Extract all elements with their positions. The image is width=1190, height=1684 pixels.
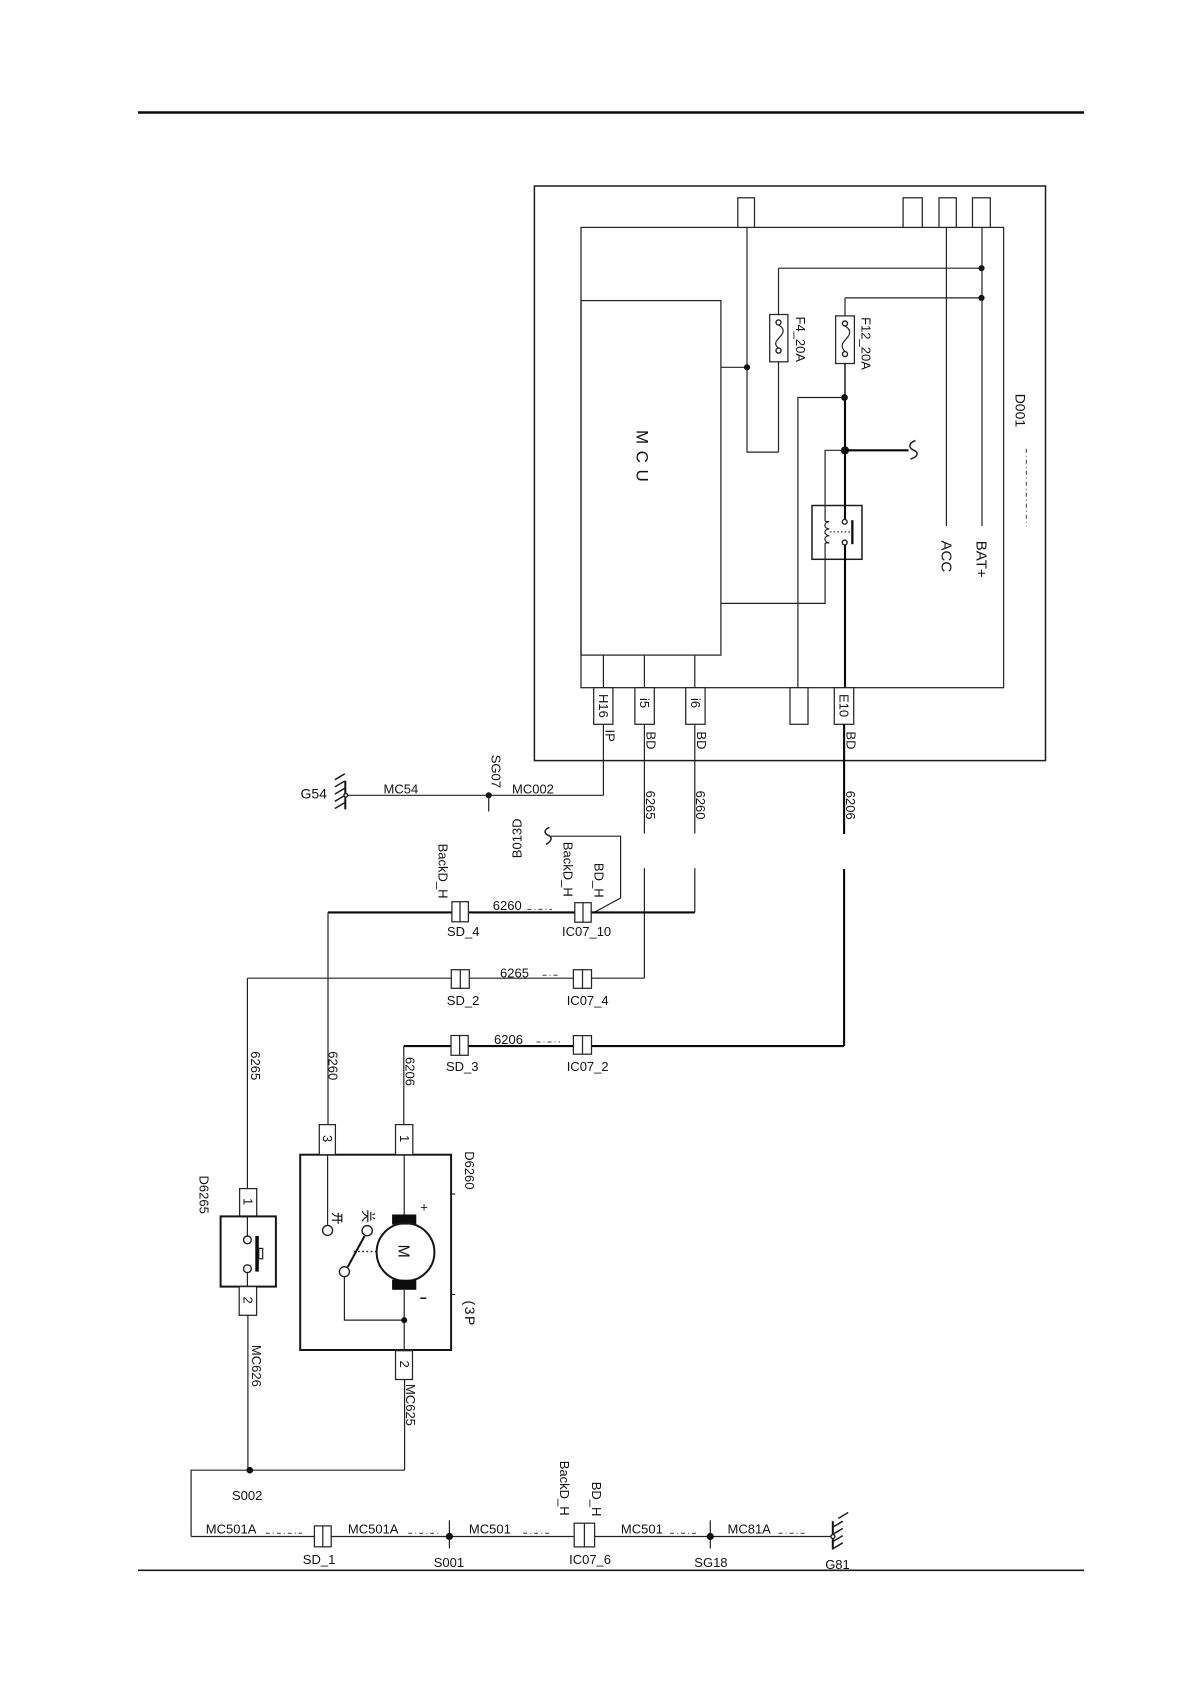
connector IC07_10 (575, 903, 591, 923)
wire: - brush to node (403, 1290, 405, 1350)
svg-text:IC07_6: IC07_6 (569, 1552, 611, 1567)
svg-text:6260: 6260 (326, 1051, 341, 1080)
svg-text:MC625: MC625 (403, 1384, 418, 1426)
svg-text:3: 3 (320, 1135, 335, 1142)
wire 6260 (lower segment to row 1) (694, 868, 696, 912)
svg-text:BAT+: BAT+ (972, 541, 989, 578)
svg-text:B013D: B013D (510, 818, 525, 858)
connector block D001 outer box (534, 186, 1045, 761)
node at MCU stub junction (744, 364, 750, 370)
wire: BAT+ tap to F12 (845, 297, 982, 299)
dash-dot on row 1 (527, 908, 552, 910)
wire: switch pole to node (344, 1277, 404, 1320)
wire 6265 from i5 (upper segment) (643, 724, 645, 833)
svg-text:D6265: D6265 (197, 1176, 212, 1214)
dash-dot before G81 (779, 1532, 806, 1534)
switch pole contact C (339, 1267, 349, 1277)
wire 6260 row1 down to motor pin 3 (327, 912, 329, 1124)
node in motor return (401, 1317, 407, 1323)
svg-text:i5: i5 (637, 698, 652, 708)
dash-dot on row 2 (543, 974, 561, 976)
svg-text:G81: G81 (825, 1557, 850, 1572)
svg-text:SG18: SG18 (694, 1555, 727, 1570)
relay contact terminal (top) (842, 519, 847, 524)
- polarity label (420, 1297, 426, 1299)
top pin B (ACC) (939, 198, 956, 228)
svg-text:S001: S001 (434, 1555, 464, 1570)
bottom page rule (138, 1569, 1084, 1571)
connector IC07_6 (574, 1523, 594, 1547)
wire 6260 from i6 (upper segment) (694, 724, 696, 833)
svg-text:IP: IP (603, 730, 618, 742)
svg-text:ACC: ACC (938, 541, 955, 573)
label tick (lower) (451, 1294, 455, 1296)
wire MC626 down from D6265 (247, 1315, 249, 1470)
heavy wire: F12 output down to relay contact (844, 398, 846, 520)
bottom pin i6 (686, 688, 705, 725)
wire 6206 row3 down to motor pin 1 (403, 1046, 405, 1125)
motor unit D6260 box (300, 1155, 451, 1350)
top pin C (BAT+) (973, 198, 991, 228)
splice S002 (247, 1467, 254, 1474)
row 1: heavy wire 6260 backdoor run (328, 911, 695, 913)
svg-text:BD: BD (644, 731, 659, 749)
svg-text:BD: BD (844, 731, 859, 749)
wire 6265 row2 down to switch D6265 (246, 978, 248, 1188)
wire: pin 3 to switch contact (327, 1155, 329, 1226)
svg-text:SD_1: SD_1 (303, 1552, 336, 1567)
relay linkage (dotted) (830, 531, 850, 533)
bottom pin (spare, unlabeled) (790, 688, 808, 725)
svg-text:MC501: MC501 (469, 1522, 511, 1537)
fuse F12_20A bottom lead (844, 364, 846, 398)
dash-dot divider line under D001 (1025, 449, 1027, 527)
wire: BAT+ tap to F4 (779, 267, 982, 269)
svg-text:6265: 6265 (500, 965, 529, 980)
heavy wire: junction out to break symbol (845, 449, 909, 451)
relay contact bar (851, 520, 853, 544)
fuse F4_20A bottom lead (778, 362, 780, 452)
wire: pin 1 to motor + brush (403, 1155, 405, 1215)
svg-text:G54: G54 (301, 786, 328, 802)
D001 inner box (581, 227, 1004, 687)
bottom pin H16 (594, 688, 613, 725)
svg-text:S002: S002 (232, 1488, 262, 1503)
switch-motor linkage (dotted) (354, 1251, 377, 1253)
connector IC07_4 (573, 970, 591, 989)
top page rule (138, 111, 1084, 114)
svg-text:6206: 6206 (843, 791, 858, 820)
svg-text:IC07_2: IC07_2 (567, 1059, 609, 1074)
switch blade (348, 1236, 365, 1267)
bottom pin E10 (834, 688, 853, 725)
wire: MCU pin to H16 (602, 655, 604, 688)
connector SD_4 (452, 902, 469, 922)
motor + brush (392, 1215, 416, 1225)
svg-text:D6260: D6260 (462, 1151, 477, 1189)
wire MC625 down from motor pin 2 (404, 1380, 406, 1471)
svg-text:MCU: MCU (633, 430, 652, 488)
svg-text:MC81A: MC81A (728, 1522, 772, 1537)
motor pin 3 (319, 1125, 335, 1155)
svg-text:6265: 6265 (248, 1051, 263, 1080)
svg-text:BackD_H: BackD_H (560, 842, 575, 897)
svg-text:H16: H16 (596, 694, 611, 718)
MCU box (581, 301, 721, 655)
svg-text:MC002: MC002 (512, 782, 554, 797)
BAT+ rail (981, 227, 983, 526)
motor - brush (392, 1280, 416, 1290)
svg-text:1: 1 (241, 1198, 256, 1205)
guan (closed) character (362, 1210, 375, 1222)
dash-dot before SD_1 (266, 1532, 302, 1534)
row 3: heavy wire 6206 run (404, 1045, 844, 1047)
svg-text:IC07_10: IC07_10 (562, 924, 611, 939)
svg-text:6206: 6206 (494, 1032, 523, 1047)
row 2: wire 6265 run (247, 977, 644, 979)
svg-text:M: M (395, 1245, 412, 1258)
svg-text:F4_20A: F4_20A (793, 317, 808, 363)
svg-text:BD: BD (694, 731, 709, 749)
wire: S002 collector run (191, 1470, 405, 1536)
wire BD_H from D310B to IC07_10 (551, 836, 621, 912)
wire break squiggle (910, 441, 917, 460)
svg-text:6265: 6265 (643, 791, 658, 820)
wire: junction to relay coil (825, 450, 845, 521)
svg-text:BackD_H: BackD_H (557, 1461, 572, 1516)
wire: relay coil return to MCU (721, 543, 825, 604)
svg-text:E10: E10 (837, 694, 852, 717)
fuse F4_20A body (770, 315, 788, 362)
connector SD_1 (314, 1526, 331, 1547)
wire: branch to spare bottom pin (798, 398, 845, 688)
connector SD_3 (451, 1036, 468, 1056)
svg-text:SD_2: SD_2 (447, 993, 480, 1008)
heavy wire 6206 (lower segment to row 3) (843, 869, 845, 1046)
node: F12 output junction to spare pin (841, 394, 848, 401)
svg-text:6260: 6260 (493, 898, 522, 913)
break squiggle at D310B (545, 827, 551, 844)
svg-text:MC54: MC54 (384, 782, 419, 797)
svg-text:BD_H: BD_H (589, 1482, 604, 1517)
label tick (upper) (451, 1193, 455, 1195)
kai (open) character (332, 1213, 342, 1224)
heavy wire: relay contact down to pin E10 (844, 545, 846, 688)
svg-text:1: 1 (397, 1135, 412, 1142)
svg-text:BackD_H: BackD_H (435, 844, 450, 899)
node: relay feed junction (841, 446, 849, 454)
svg-text:6206: 6206 (403, 1057, 418, 1086)
relay contact terminal (bottom) (842, 540, 847, 545)
svg-text:MC501: MC501 (621, 1522, 663, 1537)
svg-text:F12_20A: F12_20A (858, 317, 873, 370)
switch D6265 body (221, 1216, 276, 1286)
top pin A (unused) (903, 198, 922, 228)
switch contact A (open) (323, 1225, 333, 1235)
wire: top pin down to F4 return corner (747, 227, 779, 452)
svg-text:6260: 6260 (693, 791, 708, 820)
connector SD_2 (451, 970, 469, 989)
wire: MCU pin to i5 (643, 655, 645, 688)
svg-text:IC07_4: IC07_4 (567, 993, 609, 1008)
motor armature M (377, 1223, 435, 1281)
ground bus MC501 (191, 1536, 833, 1538)
node on BAT+ rail (F12 tap) (978, 295, 984, 301)
svg-text:(3P: (3P (462, 1301, 478, 1327)
dash-dot before SG18 (670, 1532, 696, 1534)
svg-text:MC626: MC626 (249, 1345, 264, 1387)
bottom pin i5 (635, 688, 654, 725)
fuse F12_20A top lead (844, 298, 846, 317)
switch D6265 pin 1 (240, 1189, 257, 1217)
splice SG18 (707, 1520, 714, 1548)
splice SG07 (486, 792, 492, 811)
relay box (812, 506, 862, 560)
fuse F12_20A body (836, 316, 855, 364)
svg-text:BD_H: BD_H (591, 863, 606, 898)
motor pin 2 (396, 1351, 413, 1380)
wire: MCU pin to i6 (694, 655, 696, 688)
fuse F4_20A top lead (778, 268, 780, 315)
heavy wire 6206 from E10 (upper segment) (843, 724, 845, 834)
svg-text:+: + (420, 1200, 428, 1215)
splice S001 (446, 1520, 453, 1548)
dash-dot before S001 (408, 1532, 439, 1534)
svg-text:SD_3: SD_3 (446, 1059, 479, 1074)
top pin (unnamed, MCU feed) (738, 198, 755, 228)
ground G81 (831, 1513, 848, 1550)
ACC rail (945, 227, 947, 526)
svg-text:SD_4: SD_4 (447, 924, 480, 939)
switch contact B (closed) (362, 1226, 372, 1236)
wire: MCU right edge stub to node (721, 366, 747, 368)
switch D6265 pin 2 (239, 1287, 256, 1316)
svg-text:2: 2 (397, 1361, 412, 1368)
dash-dot before IC07_6 (523, 1532, 549, 1534)
relay coil (825, 522, 829, 543)
svg-text:2: 2 (241, 1297, 256, 1304)
wire MC54 / MC002 ground run (346, 794, 604, 796)
svg-text:MC501A: MC501A (206, 1522, 257, 1537)
wire IP: H16 down to splice line (602, 724, 604, 795)
motor pin 1 (396, 1125, 413, 1155)
dash-dot on row 3 (537, 1041, 561, 1043)
node on BAT+ rail (F4 tap) (978, 265, 984, 271)
svg-text:SG07: SG07 (489, 755, 504, 788)
svg-text:MC501A: MC501A (348, 1522, 399, 1537)
svg-text:i6: i6 (688, 698, 703, 708)
connector IC07_2 (573, 1036, 591, 1055)
wire 6265 (lower segment to row 2) (643, 868, 645, 978)
ground G54 (335, 774, 348, 810)
svg-text:D001: D001 (1013, 394, 1029, 428)
